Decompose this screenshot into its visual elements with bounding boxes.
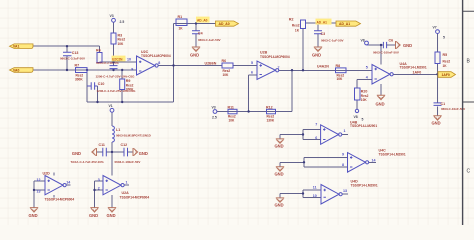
svg-text:0603-C-3.3uF-50V: 0603-C-3.3uF-50V: [60, 56, 85, 60]
svg-text:1K: 1K: [295, 29, 300, 33]
svg-text:10K: 10K: [361, 98, 368, 102]
svg-text:TSSOP14-LM2901: TSSOP14-LM2901: [400, 65, 427, 69]
svg-text:V8: V8: [354, 115, 358, 119]
svg-text:10K: 10K: [337, 77, 344, 81]
svg-text:C: C: [467, 169, 471, 175]
svg-text:300K: 300K: [75, 77, 83, 81]
svg-text:1K: 1K: [443, 64, 448, 68]
svg-text:10K: 10K: [229, 118, 236, 122]
svg-text:14: 14: [372, 159, 376, 163]
svg-text:Res2: Res2: [443, 60, 451, 64]
svg-text:V8: V8: [361, 39, 365, 43]
svg-text:14: 14: [66, 181, 70, 185]
svg-text:1206-C-4.7uF-25V-10%-C0G: 1206-C-4.7uF-25V-10%-C0G: [96, 75, 136, 79]
svg-text:GND: GND: [312, 53, 321, 58]
svg-text:5: 5: [362, 118, 364, 122]
svg-text:C1: C1: [441, 102, 446, 106]
svg-text:1206-C-4.7uF-25V-10%-C0G: 1206-C-4.7uF-25V-10%-C0G: [97, 89, 137, 93]
svg-text:0603-BLM18PG471SN1D: 0603-BLM18PG471SN1D: [116, 133, 152, 137]
svg-text:0603-C-1uF-50V: 0603-C-1uF-50V: [198, 38, 221, 42]
svg-text:0603-R-J-1K-5%: 0603-R-J-1K-5%: [96, 61, 119, 65]
svg-text:U2D: U2D: [43, 171, 51, 175]
svg-text:GND: GND: [107, 213, 116, 218]
svg-text:R12: R12: [266, 105, 273, 109]
svg-text:8: 8: [158, 61, 160, 65]
svg-text:C11: C11: [99, 143, 105, 147]
svg-text:0603-C-1uF-50V: 0603-C-1uF-50V: [321, 39, 344, 43]
svg-text:1AF0: 1AF0: [413, 70, 422, 74]
svg-text:1: 1: [344, 129, 346, 133]
svg-text:R2: R2: [289, 17, 294, 21]
svg-text:130K: 130K: [267, 118, 275, 122]
svg-text:GND: GND: [275, 144, 284, 149]
svg-text:C4: C4: [198, 31, 203, 35]
svg-text:13: 13: [37, 189, 41, 193]
svg-text:GND: GND: [275, 171, 284, 176]
svg-text:R5: R5: [443, 53, 448, 57]
svg-text:7: 7: [278, 66, 280, 70]
svg-text:0603-C-100nF-50V: 0603-C-100nF-50V: [115, 160, 141, 164]
svg-text:TSSOP14-MCP6004: TSSOP14-MCP6004: [120, 196, 150, 200]
svg-text:GND: GND: [432, 121, 441, 126]
svg-text:TSSOP14-LM2901: TSSOP14-LM2901: [350, 124, 377, 128]
svg-text:10K: 10K: [118, 42, 125, 46]
svg-text:5: 5: [366, 65, 368, 69]
svg-text:1K: 1K: [179, 26, 184, 30]
svg-text:U4A2N: U4A2N: [317, 65, 329, 69]
svg-text:L1: L1: [116, 128, 120, 132]
svg-text:0603-C-10nF-50V: 0603-C-10nF-50V: [441, 107, 465, 111]
svg-text:6: 6: [251, 70, 253, 74]
svg-text:GND: GND: [139, 151, 148, 156]
svg-text:Res2: Res2: [118, 38, 126, 42]
svg-text:9: 9: [131, 68, 133, 72]
svg-text:R8: R8: [336, 64, 341, 68]
svg-text:R6: R6: [222, 59, 227, 63]
svg-text:R7: R7: [75, 64, 80, 68]
svg-text:10: 10: [127, 57, 131, 61]
svg-text:Res2: Res2: [292, 23, 300, 27]
svg-text:VA0: VA0: [13, 68, 19, 72]
svg-text:10K: 10K: [223, 73, 230, 77]
svg-text:GND: GND: [190, 53, 199, 58]
svg-text:10: 10: [313, 194, 317, 198]
svg-text:C12: C12: [121, 143, 128, 147]
svg-text:GND: GND: [29, 213, 38, 218]
svg-text:12: 12: [37, 178, 41, 182]
svg-text:R11: R11: [228, 105, 234, 109]
svg-text:C10: C10: [98, 82, 105, 86]
svg-text:2.5: 2.5: [120, 20, 125, 24]
svg-text:5: 5: [443, 35, 445, 39]
svg-text:9: 9: [342, 153, 344, 157]
svg-text:GND: GND: [275, 203, 284, 208]
svg-text:C6: C6: [389, 38, 394, 42]
svg-text:GND: GND: [376, 102, 385, 107]
svg-text:AD_A1: AD_A1: [339, 22, 350, 26]
svg-text:GND: GND: [403, 43, 412, 48]
svg-text:TAXA-C-4.7uF-25V-10%: TAXA-C-4.7uF-25V-10%: [71, 160, 104, 164]
svg-text:4: 4: [366, 75, 368, 79]
svg-text:AD_A1: AD_A1: [317, 21, 328, 25]
svg-text:13: 13: [343, 189, 347, 193]
svg-text:V3: V3: [110, 14, 114, 18]
svg-text:TSSOP14-MCP6004: TSSOP14-MCP6004: [260, 55, 290, 59]
svg-text:GND: GND: [72, 151, 81, 156]
svg-text:TSSOP14-LM2901: TSSOP14-LM2901: [379, 153, 406, 157]
svg-text:VA1: VA1: [13, 45, 19, 49]
svg-text:V1: V1: [109, 104, 113, 108]
svg-text:TSSOP14-MCP6004: TSSOP14-MCP6004: [45, 198, 75, 202]
svg-text:V3: V3: [212, 105, 216, 109]
svg-text:8: 8: [342, 163, 344, 167]
svg-text:0603-C-100nF-50V: 0603-C-100nF-50V: [373, 51, 399, 55]
svg-text:TSSOP14-MCP6004: TSSOP14-MCP6004: [141, 54, 171, 58]
svg-text:R4: R4: [96, 49, 101, 53]
svg-text:7: 7: [315, 122, 317, 126]
svg-text:1AF0: 1AF0: [442, 73, 450, 77]
svg-text:R1: R1: [178, 15, 183, 19]
svg-text:2.5: 2.5: [212, 115, 217, 119]
svg-text:3: 3: [98, 178, 100, 182]
svg-text:AD_A0: AD_A0: [197, 19, 208, 23]
svg-text:6: 6: [315, 136, 317, 140]
svg-text:C3: C3: [321, 32, 326, 36]
svg-text:5: 5: [251, 61, 253, 65]
svg-text:1: 1: [126, 181, 128, 185]
svg-text:AD_A0: AD_A0: [219, 22, 230, 26]
svg-text:U2B6N: U2B6N: [205, 62, 217, 66]
svg-text:GND: GND: [89, 213, 98, 218]
svg-text:11: 11: [313, 186, 317, 190]
svg-text:V7: V7: [433, 25, 437, 29]
svg-text:C13: C13: [72, 51, 79, 55]
svg-text:TSSOP14-LM2901: TSSOP14-LM2901: [351, 184, 378, 188]
svg-text:2: 2: [98, 187, 100, 191]
